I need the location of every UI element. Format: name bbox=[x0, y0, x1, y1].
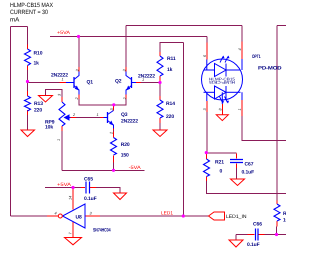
wire C66 node to right edge bbox=[265, 234, 287, 236]
svg-text:R13: R13 bbox=[34, 101, 43, 107]
pin stub C66 right bbox=[259, 234, 265, 236]
junction LED1 net bbox=[182, 214, 185, 217]
pin stub U8 input bbox=[85, 215, 100, 217]
wire OPT pin1 down and right bbox=[242, 116, 286, 141]
resistor R21 bbox=[204, 159, 210, 177]
pin stub Q3 base bbox=[100, 117, 104, 119]
ground near RP9 top bbox=[39, 96, 53, 103]
wire Q2 collector drop bbox=[125, 26, 127, 68]
resistor R22 bbox=[274, 204, 280, 221]
wire OPT pin4 drop bbox=[241, 26, 243, 42]
svg-text:U8: U8 bbox=[76, 215, 83, 221]
ground below C67 bbox=[231, 179, 245, 186]
pin stub R20 top bbox=[113, 132, 115, 138]
pin stub U8 output bbox=[47, 215, 58, 217]
svg-text:1: 1 bbox=[97, 113, 99, 117]
wire x184 vertical bbox=[183, 43, 185, 217]
svg-text:Q1: Q1 bbox=[87, 80, 94, 86]
wire -5VA rail bbox=[62, 169, 145, 171]
svg-text:10k: 10k bbox=[283, 218, 286, 224]
wire +5VA top rail bbox=[50, 36, 207, 38]
junction R22 / C66 bbox=[275, 233, 278, 236]
wire top right stub bbox=[277, 24, 286, 26]
pin stub OPT pin6 bbox=[206, 43, 208, 60]
wire C65 right to ground corner bbox=[96, 188, 120, 194]
capacitor C66 bbox=[256, 229, 259, 241]
wire OPT pin6 drop bbox=[206, 37, 208, 43]
wire Q1 collector drop bbox=[78, 37, 80, 68]
pin stub R10 top bbox=[27, 45, 29, 50]
pin stub C65 left bbox=[81, 187, 85, 189]
svg-text:1: 1 bbox=[142, 78, 144, 82]
wire node to Q1 base bbox=[28, 82, 60, 84]
pin stub RP9 top bbox=[61, 97, 63, 102]
transistor Q2 emitter arrow bbox=[126, 86, 130, 91]
wire R13 bottom to ground bbox=[27, 115, 29, 130]
svg-text:R14: R14 bbox=[166, 101, 175, 107]
svg-text:1k: 1k bbox=[167, 67, 173, 73]
svg-text:R22: R22 bbox=[283, 211, 286, 217]
pin stub Q1 emitter bbox=[78, 95, 80, 100]
pin stub RP9 bottom bbox=[61, 126, 63, 131]
pin stub R21 top bbox=[206, 154, 208, 160]
pin stub R11 bottom bbox=[159, 76, 161, 83]
wire RP9 wiper to Q3 base bbox=[76, 117, 100, 119]
potentiometer RP9 body bbox=[59, 102, 65, 126]
svg-text:HLMP-CB15: HLMP-CB15 bbox=[208, 80, 235, 85]
wire Q2 base to R11 node bbox=[141, 82, 160, 84]
svg-text:0.1uF: 0.1uF bbox=[242, 169, 255, 175]
svg-text:LED1: LED1 bbox=[161, 210, 173, 216]
pin stub R14 bottom bbox=[159, 118, 161, 123]
svg-text:1k: 1k bbox=[34, 61, 40, 67]
pin stub C67 top bbox=[236, 154, 238, 159]
wire RP9 bottom drop bbox=[61, 131, 63, 170]
wire +5VA bottom rail bbox=[45, 187, 81, 189]
svg-text:1: 1 bbox=[238, 108, 242, 110]
pin stub OPT pin1 bbox=[241, 100, 243, 116]
resistor R13 bbox=[25, 96, 31, 111]
wire RP9 top to ground arm bbox=[46, 90, 63, 98]
pin stub OPT pin8 bbox=[221, 104, 223, 115]
pin stub R11 top bbox=[159, 52, 161, 56]
inverter bubble bbox=[58, 214, 62, 218]
potentiometer RP9 wiper arrow bbox=[68, 117, 71, 119]
svg-text:R10: R10 bbox=[34, 51, 43, 57]
svg-text:R20: R20 bbox=[121, 142, 130, 148]
svg-text:Q3: Q3 bbox=[121, 112, 128, 118]
OPT1 top LED arrowheads bbox=[222, 56, 225, 59]
pin stub R22 bottom bbox=[276, 221, 278, 227]
wire left rail bbox=[10, 27, 12, 217]
pin stub R21 bottom bbox=[206, 177, 208, 182]
pin stub R20 bottom bbox=[113, 156, 115, 163]
svg-text:+5VA: +5VA bbox=[57, 30, 71, 36]
potentiometer RP9 wiper arrowhead bbox=[64, 114, 70, 121]
pin stub U8 gnd bbox=[72, 221, 74, 237]
svg-text:4: 4 bbox=[238, 48, 242, 50]
wire R21 to C67 bbox=[207, 152, 237, 154]
wire R10 bottom to node bbox=[27, 70, 29, 91]
svg-text:LED1_IN: LED1_IN bbox=[226, 214, 247, 220]
wire C66 left to ground corner bbox=[236, 234, 248, 236]
pin stub C66 left bbox=[248, 234, 255, 236]
junction R11/R14/Q2 base bbox=[158, 81, 161, 84]
svg-text:SN74HC04: SN74HC04 bbox=[93, 228, 111, 234]
opto module OPT1 bbox=[202, 57, 243, 105]
capacitor C65 bbox=[86, 182, 90, 194]
wire R21 bottom to right edge bbox=[207, 181, 287, 194]
svg-text:0.1uF: 0.1uF bbox=[84, 196, 97, 202]
pin stub R14 top bbox=[159, 96, 161, 100]
ground right of C65 bbox=[114, 193, 127, 200]
svg-text:0: 0 bbox=[220, 169, 223, 175]
wire inverter output to left rail bbox=[11, 215, 48, 217]
offpage connector LED1_IN bbox=[209, 212, 225, 220]
svg-text:2N2222: 2N2222 bbox=[51, 73, 68, 79]
pin stub RP9 wiper bbox=[71, 117, 77, 119]
pin stub R10 bottom bbox=[27, 66, 29, 71]
svg-text:+5VA: +5VA bbox=[57, 182, 72, 188]
pin stub Q3 collector bbox=[113, 106, 115, 111]
svg-text:CURRENT = 30: CURRENT = 30 bbox=[10, 9, 48, 16]
wire R14 bottom to ground bbox=[159, 123, 161, 130]
svg-text:R21: R21 bbox=[215, 159, 224, 165]
junction +5VA rail / U8 power pin bbox=[71, 186, 74, 189]
junction OPT pin3 / R21 / C67 bbox=[205, 151, 208, 154]
svg-text:OPT1: OPT1 bbox=[252, 54, 261, 60]
junction R20 / -5VA rail bbox=[112, 169, 115, 172]
ground below U8 bbox=[65, 238, 82, 245]
svg-text:2N2222: 2N2222 bbox=[121, 119, 138, 125]
wire node to R14 bbox=[159, 83, 161, 97]
wire Q3 emitter to R20 bbox=[113, 130, 115, 132]
pin stub C65 right bbox=[90, 187, 96, 189]
wire C67 below to ground bbox=[236, 168, 238, 179]
pin stub Q1 collector bbox=[78, 67, 80, 72]
transistor Q1 bbox=[66, 72, 79, 95]
svg-text:mA: mA bbox=[10, 16, 20, 23]
ground below R13 bbox=[21, 130, 35, 137]
pin stub Q3 emitter bbox=[113, 128, 115, 131]
transistor Q3 emitter arrow bbox=[109, 121, 113, 126]
ground below C66 bbox=[229, 240, 243, 247]
svg-text:4: 4 bbox=[55, 212, 57, 216]
svg-text:2N2222: 2N2222 bbox=[138, 73, 155, 79]
svg-text:C65: C65 bbox=[84, 177, 93, 183]
svg-text:C67: C67 bbox=[245, 161, 254, 167]
capacitor C67 bbox=[230, 160, 243, 163]
pin stub Q1 base bbox=[60, 82, 67, 84]
resistor R10 bbox=[25, 49, 31, 66]
svg-text:220: 220 bbox=[34, 108, 42, 114]
svg-text:220: 220 bbox=[166, 114, 174, 120]
junction R10/R13/Q1 base bbox=[26, 80, 29, 83]
resistor R11 bbox=[157, 56, 163, 76]
pin stub Q2 base bbox=[136, 82, 141, 84]
pin stub R13 bottom bbox=[27, 110, 29, 115]
wire Q1 emitter to Q2 emitter bbox=[79, 99, 126, 105]
resistor R14 bbox=[157, 100, 163, 118]
ground below R14 bbox=[153, 130, 167, 137]
pin stub R13 top bbox=[27, 91, 29, 96]
inverter U8 bbox=[63, 204, 86, 228]
svg-text:HLMP-CB15 MAX: HLMP-CB15 MAX bbox=[10, 2, 53, 9]
svg-text:PD-MOD: PD-MOD bbox=[258, 66, 282, 72]
wire right vertical x277 bbox=[276, 25, 278, 200]
pin stub Q2 emitter bbox=[125, 95, 127, 100]
svg-text:Q2: Q2 bbox=[115, 79, 122, 85]
wire R22 bottom to C66 node bbox=[276, 227, 278, 235]
svg-text:0.1uF: 0.1uF bbox=[247, 242, 260, 248]
wire R10 top drop bbox=[27, 27, 29, 45]
pin stub C67 bottom bbox=[236, 164, 238, 169]
svg-text:C66: C66 bbox=[253, 222, 262, 228]
pin stub Q2 collector bbox=[125, 67, 127, 72]
wire top-left horizontal bbox=[11, 26, 28, 28]
OPT1 bottom LED arrowheads bbox=[221, 101, 224, 104]
wire OPT pin3 down bbox=[206, 112, 208, 153]
wire inverter input to LED1 connector bbox=[100, 215, 209, 217]
pin stub OPT pin4 bbox=[241, 42, 243, 60]
svg-text:-5VA: -5VA bbox=[129, 165, 142, 171]
transistor Q1 emitter arrow bbox=[75, 86, 79, 91]
pin stub OPT pin3 bbox=[206, 101, 208, 112]
svg-text:10k: 10k bbox=[45, 125, 53, 131]
svg-text:1: 1 bbox=[62, 78, 64, 82]
pin stub R22 top bbox=[276, 201, 278, 205]
transistor Q3 bbox=[104, 111, 114, 129]
pin stub U8 power bbox=[72, 188, 74, 210]
svg-text:1: 1 bbox=[57, 139, 61, 141]
wire R20 bottom to -5VA rail bbox=[113, 163, 115, 171]
svg-text:150: 150 bbox=[121, 153, 129, 159]
junction emitter bus / Q3 collector bbox=[112, 103, 115, 106]
svg-text:R11: R11 bbox=[167, 56, 176, 62]
transistor Q2 bbox=[126, 72, 136, 95]
wire R11 top loop bbox=[160, 43, 184, 53]
wire y25 horizontal bbox=[126, 25, 242, 27]
resistor R20 bbox=[111, 138, 117, 156]
junction +5VA / Q1 collector bbox=[77, 35, 80, 38]
svg-text:14: 14 bbox=[69, 196, 73, 200]
ground below OPT pin8 bbox=[216, 115, 228, 121]
